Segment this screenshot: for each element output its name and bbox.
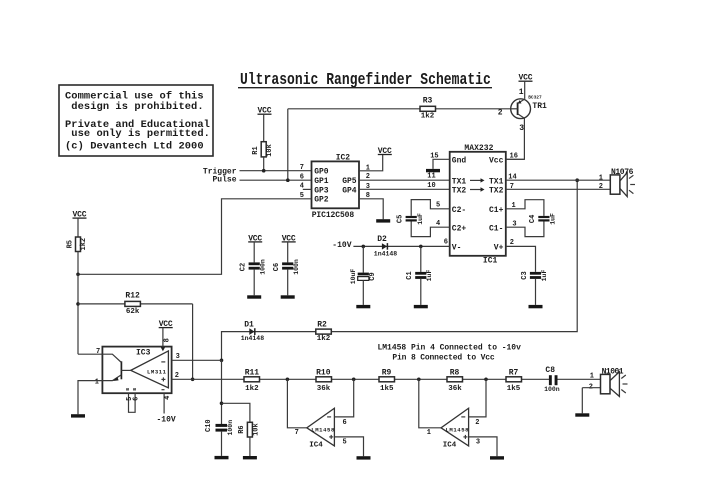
- svg-text:GP0: GP0: [314, 168, 329, 177]
- capacitor C6 with VCC: [273, 234, 300, 295]
- svg-text:R7: R7: [509, 368, 519, 377]
- svg-text:11: 11: [427, 173, 435, 181]
- resistor R10: [316, 368, 332, 393]
- ground C1: [414, 305, 428, 308]
- svg-text:C9: C9: [369, 272, 377, 280]
- svg-text:2: 2: [498, 109, 503, 118]
- svg-text:R6: R6: [238, 425, 246, 433]
- svg-text:C2: C2: [240, 263, 248, 271]
- svg-text:7: 7: [295, 429, 299, 437]
- node junction C10/R6: [220, 402, 224, 406]
- svg-text:6: 6: [343, 419, 347, 427]
- wire IC3 pin3: [172, 359, 222, 361]
- svg-text:LM311: LM311: [147, 368, 167, 375]
- svg-text:R2: R2: [317, 321, 327, 330]
- capacitor C9 10uF electrolytic: [350, 246, 377, 305]
- wire IC2 pin3 GP4 to MAX232 pin10: [359, 188, 450, 190]
- svg-text:-10V: -10V: [157, 416, 176, 425]
- power VCC above IC2 pin1: [378, 147, 392, 156]
- svg-text:D1: D1: [244, 321, 254, 330]
- wire IC4a output feedback: [287, 379, 306, 428]
- svg-text:TX2: TX2: [489, 186, 504, 195]
- svg-text:IC1: IC1: [483, 256, 498, 265]
- svg-text:6: 6: [133, 397, 141, 401]
- power VCC above R1: [258, 107, 272, 142]
- copyright note box: [59, 85, 213, 156]
- wire IC2 pin4 stub (GP3): [303, 188, 312, 190]
- wire IC4b output: [419, 379, 441, 428]
- wire MAX232 pin14 TX1 to N1076: [506, 179, 611, 181]
- wire D1 feedback line: [222, 180, 578, 360]
- svg-text:Ultrasonic Rangefinder Schemat: Ultrasonic Rangefinder Schematic: [240, 69, 491, 89]
- svg-text:10k: 10k: [252, 423, 260, 436]
- svg-text:15: 15: [430, 153, 438, 161]
- svg-text:LM1458: LM1458: [311, 426, 335, 433]
- transducer N1001: [582, 368, 627, 414]
- node junction TX1 line: [575, 178, 579, 182]
- wire MAX232 pin2 to C3: [506, 246, 536, 272]
- svg-text:IC3: IC3: [136, 348, 151, 357]
- wire trigger: [240, 170, 312, 172]
- power VCC above IC3 pin8: [159, 320, 173, 351]
- wire IC4b pin2: [469, 379, 486, 417]
- power VCC above TR1: [519, 74, 533, 99]
- node junction rail/R12: [76, 302, 80, 306]
- resistor R8: [447, 368, 463, 393]
- resistor R5: [67, 237, 89, 274]
- ground C10: [215, 456, 229, 459]
- svg-text:GP4: GP4: [342, 186, 357, 195]
- svg-text:36k: 36k: [317, 385, 331, 393]
- wire -10V line to MAX232 pin6: [353, 245, 449, 247]
- wire IC4b pin3 to ground: [469, 437, 497, 456]
- diode D1 1n4148: [241, 321, 265, 342]
- svg-text:R1: R1: [252, 146, 260, 154]
- svg-text:R11: R11: [245, 368, 260, 377]
- svg-text:1: 1: [427, 429, 431, 437]
- resistor R12: [78, 292, 193, 316]
- svg-text:36k: 36k: [448, 385, 462, 393]
- svg-text:C1+: C1+: [489, 206, 504, 215]
- ground MAX232 pin15: [426, 169, 440, 172]
- wire IC2 pin2 GP5 to MAX232 pin11: [359, 179, 450, 181]
- svg-text:1k2: 1k2: [80, 238, 88, 251]
- svg-text:8: 8: [163, 338, 171, 342]
- svg-text:GP2: GP2: [314, 196, 329, 205]
- ground IC2 pin8: [376, 219, 390, 222]
- svg-text:B: B: [132, 388, 138, 391]
- wire R12 down to inverting line: [192, 304, 194, 379]
- svg-text:IC4: IC4: [443, 441, 457, 449]
- wire riser pulse to top line: [287, 109, 289, 180]
- svg-text:1n4148: 1n4148: [241, 335, 265, 342]
- capacitor C4 (pins 1,3): [506, 200, 557, 237]
- diode D2 1n4148: [374, 235, 398, 258]
- svg-text:R12: R12: [125, 292, 140, 301]
- node junctions main line: [286, 378, 290, 382]
- ground C9: [356, 305, 370, 308]
- wire main output line IC3 pin2: [172, 378, 550, 380]
- svg-text:100n: 100n: [227, 420, 234, 436]
- node junction D1-line/pin3: [220, 359, 224, 363]
- svg-text:(c) Devantech Ltd 2000: (c) Devantech Ltd 2000: [65, 140, 204, 152]
- wire IC2 pin1 to VCC: [359, 155, 383, 171]
- svg-text:R3: R3: [423, 96, 433, 105]
- svg-text:5: 5: [343, 439, 347, 447]
- IC3 balance pins 5,6: [126, 393, 141, 412]
- ground C3: [529, 305, 543, 308]
- svg-text:N1076: N1076: [611, 168, 634, 177]
- svg-text:C2-: C2-: [452, 206, 466, 215]
- svg-text:Gnd: Gnd: [452, 157, 467, 166]
- svg-text:4: 4: [164, 396, 172, 400]
- wire IC3 pin7: [78, 353, 102, 355]
- wire TR1 collector to MAX232 pin16: [506, 118, 525, 159]
- wire pulse: [240, 179, 312, 181]
- wire top line to R3/TR1: [288, 108, 511, 110]
- svg-text:1k2: 1k2: [245, 385, 259, 393]
- resistor R7: [506, 368, 522, 393]
- wire vertical to C10 node: [221, 360, 223, 424]
- svg-text:1k5: 1k5: [380, 385, 394, 393]
- resistor R9: [379, 368, 395, 393]
- wire branch to R6: [222, 403, 250, 422]
- svg-text:1: 1: [519, 88, 524, 97]
- wire IC4a pin6: [334, 379, 353, 417]
- svg-text:R9: R9: [382, 368, 392, 377]
- svg-text:IC2: IC2: [336, 153, 351, 162]
- ground IC4a pin5: [357, 456, 371, 459]
- ground IC3 pin1: [71, 414, 85, 417]
- wire MAX232 pin7 TX2 to N1076: [506, 188, 611, 190]
- svg-text:Pulse: Pulse: [212, 175, 236, 184]
- svg-text:LM1458 Pin 4 Connected to -10v: LM1458 Pin 4 Connected to -10v: [378, 344, 522, 353]
- svg-text:1: 1: [599, 174, 603, 182]
- svg-text:GP3: GP3: [314, 186, 329, 195]
- op-amp IC4a LM1458: [307, 408, 335, 449]
- ground N1001 pin2: [575, 413, 589, 416]
- svg-text:C2+: C2+: [452, 224, 467, 233]
- svg-text:10uF: 10uF: [350, 269, 357, 285]
- capacitor C3: [521, 270, 548, 305]
- svg-text:C8: C8: [545, 366, 555, 375]
- svg-text:C5: C5: [396, 215, 404, 223]
- svg-text:6: 6: [300, 173, 304, 181]
- svg-text:1: 1: [95, 379, 99, 387]
- wire IC2 pin8 to ground: [359, 199, 383, 219]
- op-amp IC4b LM1458: [441, 408, 469, 449]
- svg-text:1uF: 1uF: [426, 270, 433, 282]
- svg-text:C4: C4: [529, 215, 537, 223]
- power VCC above R5: [73, 211, 87, 238]
- svg-text:LM1458: LM1458: [446, 426, 470, 433]
- resistor R2: [316, 321, 332, 343]
- capacitor C5 (pins 5,4): [396, 200, 449, 237]
- svg-text:100n: 100n: [544, 386, 560, 393]
- svg-text:6: 6: [444, 239, 448, 247]
- svg-text:design is prohibited.: design is prohibited.: [71, 101, 203, 113]
- title: [238, 69, 492, 89]
- svg-text:R5: R5: [67, 240, 75, 248]
- op-amp U IC3 LM311: [102, 347, 171, 394]
- capacitor C8: [544, 366, 560, 393]
- svg-text:TX1: TX1: [452, 177, 467, 186]
- capacitor C10: [205, 419, 234, 456]
- svg-text:GP1: GP1: [314, 177, 329, 186]
- svg-text:C10: C10: [205, 419, 213, 432]
- svg-text:TX2: TX2: [452, 186, 467, 195]
- svg-text:3: 3: [476, 439, 480, 447]
- svg-text:C1-: C1-: [489, 224, 503, 233]
- wire left rail down: [77, 274, 79, 354]
- svg-text:V+: V+: [494, 244, 504, 253]
- svg-text:Vcc: Vcc: [489, 157, 504, 166]
- node junction rail/GP2: [76, 273, 80, 277]
- svg-text:C1: C1: [406, 271, 414, 279]
- wire MAX232 pin15 to ground: [433, 159, 450, 169]
- resistor R1: [252, 142, 274, 171]
- svg-text:D2: D2: [377, 235, 387, 244]
- capacitor C1: [406, 246, 433, 305]
- transducer N1076: [599, 168, 635, 197]
- svg-text:PIC12C508: PIC12C508: [312, 211, 355, 220]
- svg-text:1k2: 1k2: [317, 335, 331, 343]
- svg-text:BC327: BC327: [528, 95, 542, 101]
- svg-text:10k: 10k: [266, 144, 274, 157]
- wire IC3 pin1 to ground: [78, 381, 102, 415]
- node junction R12/line: [191, 378, 195, 382]
- svg-text:2: 2: [599, 183, 603, 191]
- ground C6: [281, 295, 295, 298]
- svg-text:GP5: GP5: [342, 177, 357, 186]
- svg-text:10: 10: [427, 182, 435, 190]
- transistor TR1 (BC327 PNP): [498, 88, 547, 133]
- svg-text:R8: R8: [450, 368, 460, 377]
- resistor R6: [238, 422, 260, 456]
- op-amp U IC1 MAX232: [450, 144, 506, 265]
- svg-text:100n: 100n: [260, 259, 267, 275]
- capacitor C2 with VCC: [240, 234, 267, 295]
- svg-text:use only is permitted.: use only is permitted.: [71, 128, 210, 140]
- resistor R11: [244, 368, 260, 393]
- ground C2: [247, 295, 261, 298]
- svg-text:1uF: 1uF: [541, 270, 548, 282]
- node junction C9: [362, 245, 366, 249]
- svg-text:R10: R10: [316, 368, 331, 377]
- svg-text:V-: V-: [452, 244, 462, 253]
- node junction C1: [419, 245, 423, 249]
- svg-text:TX1: TX1: [489, 177, 504, 186]
- svg-text:B: B: [125, 388, 131, 391]
- svg-text:Pin 8 Connected to Vcc: Pin 8 Connected to Vcc: [392, 354, 494, 363]
- wire MAX232 pin16 stub: [506, 158, 525, 160]
- svg-text:100n: 100n: [293, 259, 300, 275]
- resistor R3: [420, 96, 436, 120]
- svg-text:TR1: TR1: [532, 102, 547, 111]
- svg-text:MAX232: MAX232: [464, 144, 493, 153]
- svg-text:7: 7: [300, 164, 304, 172]
- svg-text:62k: 62k: [126, 308, 140, 316]
- svg-text:1: 1: [590, 373, 594, 381]
- svg-text:C3: C3: [521, 271, 529, 279]
- svg-text:1uF: 1uF: [417, 213, 424, 225]
- svg-text:IC4: IC4: [309, 441, 323, 449]
- node junction riser/pulse: [286, 178, 290, 182]
- op-amp U IC2 PIC12C508: [300, 153, 370, 220]
- wire IC2 pin5 GP2 loop to left rail: [78, 199, 312, 274]
- node junction R1/trigger: [262, 169, 266, 173]
- svg-text:1n4148: 1n4148: [374, 251, 398, 258]
- svg-text:1k2: 1k2: [421, 113, 435, 121]
- wire IC4a pin5 to ground: [334, 437, 363, 456]
- ground IC4b pin3: [490, 456, 504, 459]
- IC3 pin 4 to -10V: [157, 393, 176, 424]
- svg-text:-10V: -10V: [332, 241, 351, 250]
- ground R6: [243, 456, 257, 459]
- svg-text:N1001: N1001: [602, 368, 624, 377]
- svg-text:1k5: 1k5: [507, 385, 521, 393]
- svg-text:C6: C6: [273, 263, 281, 271]
- svg-text:3: 3: [519, 124, 524, 133]
- svg-text:1uF: 1uF: [550, 213, 557, 225]
- svg-text:2: 2: [475, 419, 479, 427]
